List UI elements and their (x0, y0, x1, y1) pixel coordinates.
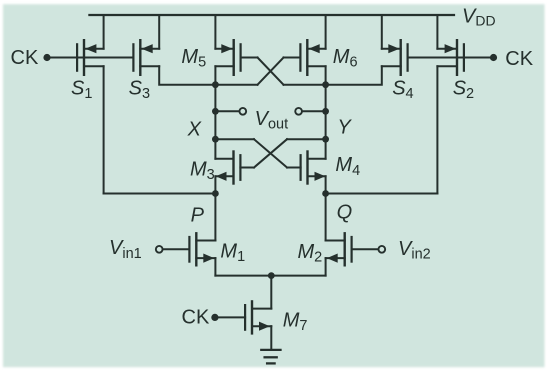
svg-text:CK: CK (11, 47, 39, 69)
svg-text:P: P (191, 204, 205, 226)
svg-text:Y: Y (337, 116, 352, 138)
svg-text:CK: CK (182, 307, 210, 329)
svg-text:Q: Q (337, 201, 353, 223)
svg-text:CK: CK (505, 48, 533, 70)
svg-text:X: X (187, 118, 202, 140)
